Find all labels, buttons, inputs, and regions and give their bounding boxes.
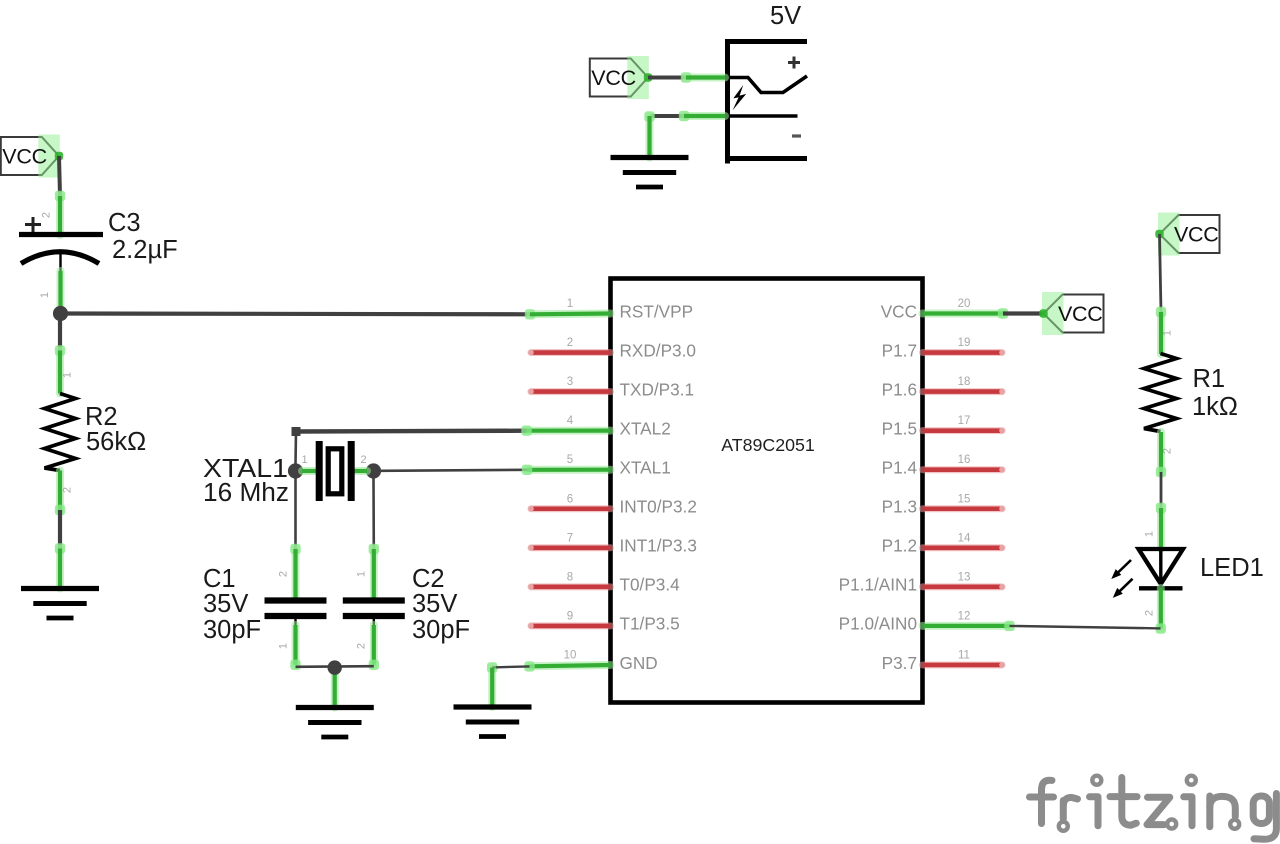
IC pin 20 VCC: [881, 298, 971, 321]
IC pin 5 XTAL1: [567, 454, 671, 477]
IC pin 9 T1/P3.5: [528, 610, 680, 633]
svg-text:6: 6: [567, 493, 573, 505]
node junction C3/R2/RST: [53, 306, 68, 321]
svg-text:30pF: 30pF: [412, 616, 470, 644]
svg-text:20: 20: [958, 298, 971, 310]
svg-text:5: 5: [567, 454, 573, 466]
wire R2 to ground: [55, 510, 65, 589]
svg-text:8: 8: [567, 571, 573, 583]
IC pin 4 leg (green): [527, 427, 611, 435]
wire junction to ground (C1/C2): [331, 669, 339, 708]
wire LED1 to P1.0/AIN0: [1004, 621, 1160, 631]
svg-text:15: 15: [958, 493, 971, 505]
svg-text:11: 11: [958, 649, 970, 661]
IC pin 1 RST/VPP: [567, 298, 693, 321]
svg-text:1: 1: [1144, 531, 1156, 537]
IC pin 15 P1.3: [882, 493, 1005, 516]
wire crystal pin1 down to C1: [290, 478, 300, 554]
IC pin 6 INT0/P3.2: [528, 493, 697, 516]
svg-text:P1.4: P1.4: [882, 458, 918, 478]
svg-text:35V: 35V: [412, 590, 457, 618]
svg-text:9: 9: [567, 610, 573, 622]
svg-text:GND: GND: [620, 653, 658, 673]
wire pin20 to VCC: [998, 308, 1044, 318]
wire VCC to C3: [55, 156, 65, 201]
ground (battery): [611, 158, 689, 188]
svg-text:10: 10: [564, 649, 577, 661]
label C3 2.2uF: [108, 209, 178, 264]
label 5V: [770, 2, 801, 30]
svg-text:16: 16: [958, 454, 971, 466]
svg-text:1: 1: [567, 298, 573, 310]
LED LED1: [1111, 508, 1183, 634]
svg-text:XTAL2: XTAL2: [620, 418, 671, 438]
svg-text:2: 2: [278, 571, 290, 577]
svg-text:5V: 5V: [770, 2, 801, 30]
svg-text:TXD/P3.1: TXD/P3.1: [620, 379, 695, 399]
svg-text:2: 2: [360, 454, 366, 466]
label AT89C2051: [721, 435, 815, 455]
svg-text:2: 2: [1144, 610, 1156, 616]
svg-text:P1.0/AIN0: P1.0/AIN0: [839, 614, 917, 634]
svg-text:VCC: VCC: [881, 301, 917, 321]
svg-text:RST/VPP: RST/VPP: [620, 301, 694, 321]
svg-text:VCC: VCC: [1174, 223, 1219, 247]
svg-text:35V: 35V: [203, 590, 248, 618]
IC pin 7 INT1/P3.3: [528, 532, 697, 555]
svg-text:1: 1: [356, 571, 368, 577]
svg-text:1: 1: [1162, 330, 1174, 336]
svg-text:1: 1: [39, 292, 51, 298]
svg-text:P1.6: P1.6: [882, 379, 917, 399]
svg-text:VCC: VCC: [2, 145, 47, 169]
svg-text:T0/P3.4: T0/P3.4: [620, 575, 681, 595]
capacitor C2: [343, 549, 405, 670]
svg-text:4: 4: [567, 415, 574, 427]
wire crystal pin2 down to C2: [369, 478, 379, 554]
node junction C1/C2/ground: [328, 660, 342, 674]
IC pin 14 P1.2: [882, 532, 1005, 555]
ground (R2): [21, 589, 99, 619]
wire C1 to C2 bottom: [296, 665, 374, 668]
svg-text:2: 2: [567, 337, 573, 349]
svg-text:C2: C2: [412, 565, 445, 593]
wire VCC to R1: [1156, 234, 1166, 317]
svg-text:VCC: VCC: [591, 66, 636, 90]
svg-text:1: 1: [62, 372, 74, 378]
resistor R1: [1144, 312, 1177, 477]
svg-text:P1.2: P1.2: [882, 536, 917, 556]
IC pin 4 XTAL2: [567, 415, 671, 438]
net label VCC (top left): [1, 135, 63, 178]
svg-text:R1: R1: [1193, 365, 1226, 393]
resistor R2: [45, 351, 76, 516]
label LED1: [1200, 554, 1264, 582]
IC pin 13 P1.1/AIN1: [839, 571, 1005, 594]
wire R1 to LED1: [1156, 472, 1166, 513]
svg-text:T1/P3.5: T1/P3.5: [620, 614, 680, 634]
IC pin 20 leg (green): [923, 310, 1004, 318]
wire XTAL2 to crystal: [292, 426, 532, 465]
svg-text:14: 14: [958, 532, 971, 544]
svg-text:30pF: 30pF: [203, 616, 261, 644]
IC pin 5 leg (green): [527, 466, 611, 474]
wire VCC to battery +: [648, 72, 725, 82]
svg-text:2: 2: [41, 212, 53, 218]
fritzing logo: [1030, 776, 1277, 840]
svg-text:C1: C1: [203, 565, 236, 593]
svg-text:RXD/P3.0: RXD/P3.0: [620, 340, 696, 360]
crystal XTAL1: [288, 441, 381, 501]
svg-text:2: 2: [1162, 448, 1174, 454]
svg-text:18: 18: [958, 376, 971, 388]
IC pin 17 P1.5: [882, 415, 1005, 438]
svg-text:R2: R2: [85, 403, 118, 431]
net label VCC (pin 20): [1039, 292, 1103, 335]
svg-text:1: 1: [278, 643, 290, 649]
svg-text:P1.3: P1.3: [882, 497, 917, 517]
wire battery - to ground: [644, 111, 725, 158]
battery BT1 5V symbol: [725, 39, 807, 164]
svg-text:2.2µF: 2.2µF: [112, 236, 178, 264]
capacitor C3: [19, 196, 103, 310]
IC pin 12 leg (green): [923, 622, 1010, 630]
label C2 35V 30pF: [412, 565, 470, 644]
svg-text:P1.1/AIN1: P1.1/AIN1: [839, 575, 917, 595]
IC pin 11 P3.7: [882, 649, 1005, 672]
label XTAL1 16 Mhz: [203, 455, 289, 507]
wire junction to RST/VPP: [61, 309, 536, 319]
svg-text:12: 12: [958, 610, 971, 622]
IC pin 19 P1.7: [882, 337, 1005, 360]
net label VCC (battery): [590, 56, 652, 99]
IC pin 12 P1.0/AIN0: [839, 610, 971, 633]
svg-text:P1.5: P1.5: [882, 418, 917, 438]
IC pin 10 leg (green): [530, 665, 611, 666]
svg-text:1kΩ: 1kΩ: [1192, 393, 1238, 421]
IC pin 16 P1.4: [882, 454, 1005, 477]
svg-text:AT89C2051: AT89C2051: [721, 435, 815, 455]
svg-text:LED1: LED1: [1200, 554, 1264, 582]
svg-text:P3.7: P3.7: [882, 653, 917, 673]
svg-text:3: 3: [567, 376, 573, 388]
svg-text:13: 13: [958, 571, 971, 583]
svg-text:17: 17: [958, 415, 971, 427]
svg-text:VCC: VCC: [1058, 302, 1103, 326]
ground (GND pin): [454, 707, 532, 737]
svg-text:2: 2: [62, 487, 74, 493]
IC pin 18 P1.6: [882, 376, 1005, 399]
IC pin 3 TXD/P3.1: [528, 376, 694, 399]
IC pin 2 RXD/P3.0: [528, 337, 696, 360]
wire junction to R2: [55, 314, 65, 356]
wire GND pin to ground: [487, 661, 535, 707]
svg-text:56kΩ: 56kΩ: [86, 428, 146, 456]
IC U1 AT89C2051 body: [611, 279, 923, 703]
svg-text:P1.7: P1.7: [882, 340, 917, 360]
label R1 1kOhm: [1192, 365, 1238, 421]
svg-text:INT1/P3.3: INT1/P3.3: [620, 536, 697, 556]
svg-text:7: 7: [567, 532, 573, 544]
svg-text:2: 2: [356, 643, 368, 649]
svg-text:19: 19: [958, 337, 971, 349]
svg-text:INT0/P3.2: INT0/P3.2: [620, 497, 697, 517]
wire crystal to XTAL1 pin: [374, 465, 533, 475]
IC pin 10 GND: [564, 649, 658, 672]
ground (C1/C2): [296, 708, 374, 738]
svg-text:C3: C3: [108, 209, 141, 237]
svg-text:16 Mhz: 16 Mhz: [203, 479, 289, 507]
IC pin 8 T0/P3.4: [528, 571, 680, 594]
svg-text:XTAL1: XTAL1: [620, 458, 671, 478]
svg-text:1: 1: [301, 454, 307, 466]
label R2 56kOhm: [85, 403, 146, 456]
net label VCC (R1): [1155, 213, 1219, 256]
capacitor C1: [265, 549, 327, 670]
label C1 35V 30pF: [203, 565, 261, 644]
IC pin 1 leg (green): [530, 310, 611, 319]
